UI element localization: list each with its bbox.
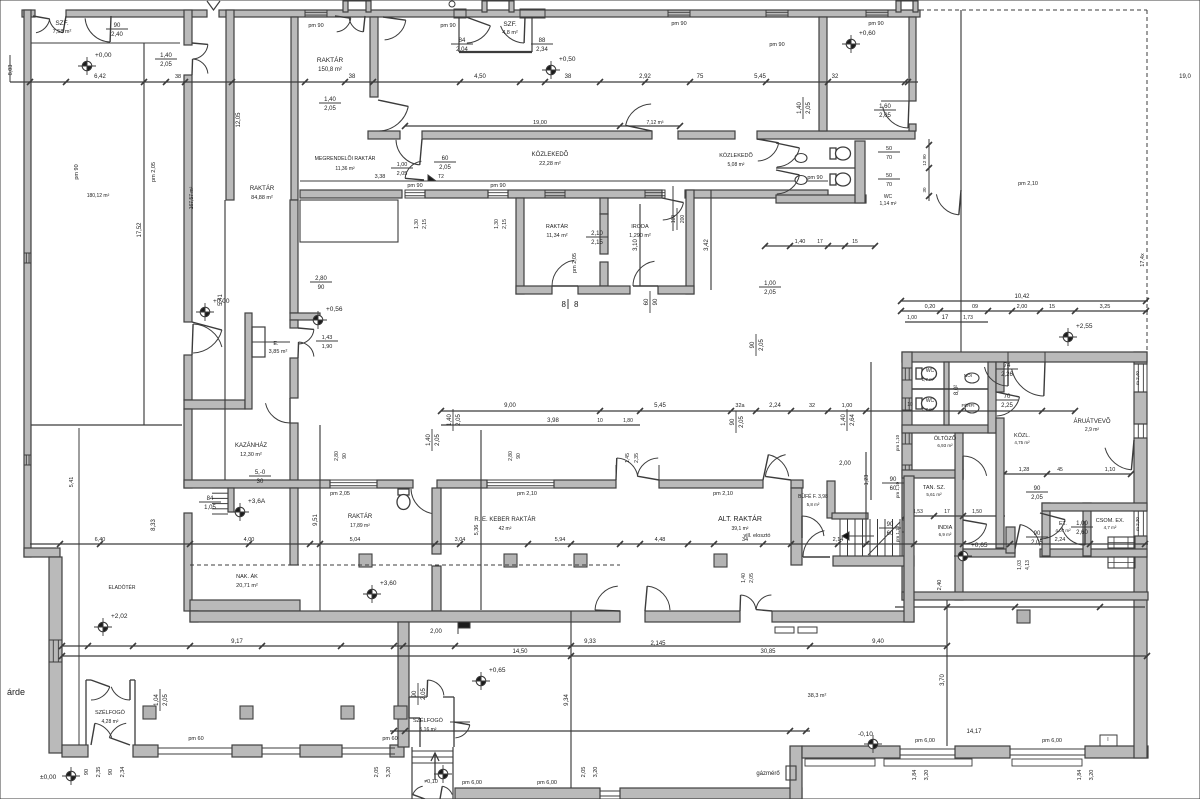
svg-text:FÉRFI: FÉRFI [962,402,975,408]
svg-text:2,24: 2,24 [769,403,781,409]
svg-text:1,40: 1,40 [795,239,806,245]
svg-text:3,04: 3,04 [455,537,466,543]
svg-text:E.: E. [273,341,279,347]
svg-text:32: 32 [809,403,815,409]
svg-text:WC: WC [926,368,935,374]
svg-text:3,20: 3,20 [593,767,599,778]
svg-text:19,0: 19,0 [1179,74,1191,80]
svg-text:22,28 m²: 22,28 m² [539,161,561,167]
svg-text:2,05: 2,05 [879,113,891,119]
svg-text:2,34: 2,34 [120,767,126,778]
svg-text:2,05: 2,05 [160,62,172,68]
svg-text:1,30: 1,30 [414,219,420,229]
svg-text:ÖLTÖZÕ: ÖLTÖZÕ [934,435,957,442]
svg-text:3,42: 3,42 [704,239,710,251]
svg-text:1,40: 1,40 [160,53,172,59]
svg-text:1,40: 1,40 [447,414,453,426]
svg-text:6,42: 6,42 [94,74,106,80]
svg-text:9,34: 9,34 [564,694,570,706]
svg-text:SZÉLFOGÓ: SZÉLFOGÓ [413,717,444,724]
svg-text:5,61 m²: 5,61 m² [926,492,942,497]
svg-text:84: 84 [459,38,466,44]
svg-text:KAZÁNHÁZ: KAZÁNHÁZ [235,442,267,449]
svg-text:RAKTÁR: RAKTÁR [348,513,373,520]
svg-text:2,15: 2,15 [422,219,428,229]
svg-text:1,00: 1,00 [764,281,776,287]
svg-text:90: 90 [114,23,121,29]
svg-text:50: 50 [886,173,892,179]
svg-text:84: 84 [207,496,214,502]
svg-text:3,85 m²: 3,85 m² [269,349,288,355]
svg-text:60: 60 [644,298,650,305]
svg-text:1,28: 1,28 [1019,467,1030,473]
svg-text:NÕI: NÕI [964,372,972,378]
svg-text:17: 17 [817,239,823,245]
svg-text:2,15: 2,15 [591,240,603,246]
svg-text:2,05: 2,05 [163,694,169,706]
svg-text:1,290 m²: 1,290 m² [629,233,651,239]
svg-text:1,7 m²: 1,7 m² [922,377,935,382]
svg-text:38: 38 [349,74,356,80]
svg-text:2,05: 2,05 [439,165,451,171]
svg-text:17,52: 17,52 [137,222,143,238]
svg-text:CSOM. EX.: CSOM. EX. [1096,518,1125,524]
svg-text:pm 2,05: pm 2,05 [330,491,350,497]
svg-text:10: 10 [597,418,603,424]
svg-text:150,8 m²: 150,8 m² [318,67,342,73]
svg-text:90: 90 [412,690,418,697]
svg-text:4,75 m²: 4,75 m² [1014,440,1030,445]
svg-text:NAK. ÁK: NAK. ÁK [236,573,258,580]
svg-text:12 90: 12 90 [922,154,927,166]
svg-text:8,33: 8,33 [151,519,157,531]
svg-text:2,80: 2,80 [334,451,340,461]
svg-text:m 2,40: m 2,40 [1135,371,1140,385]
svg-text:75: 75 [697,74,704,80]
svg-text:2,80: 2,80 [315,276,327,282]
svg-text:9,33: 9,33 [584,639,596,645]
svg-text:90: 90 [653,298,659,305]
svg-text:4,50: 4,50 [474,74,486,80]
svg-text:+2,02: +2,02 [111,613,128,620]
svg-text:1,40: 1,40 [324,97,336,103]
svg-text:2,05: 2,05 [324,106,336,112]
svg-text:pm 90: pm 90 [440,23,455,29]
svg-text:1,73: 1,73 [963,315,973,321]
svg-text:≠0,10: ≠0,10 [424,779,438,785]
svg-text:5,45: 5,45 [754,74,766,80]
svg-text:3,70: 3,70 [940,674,946,686]
svg-text:38: 38 [565,74,572,80]
svg-text:11,34 m²: 11,34 m² [546,233,567,239]
svg-text:pm 6,00: pm 6,00 [537,780,557,786]
svg-text:1,00: 1,00 [907,315,917,321]
svg-text:m 2,30: m 2,30 [1135,517,1140,531]
svg-text:2,05: 2,05 [1031,540,1043,546]
svg-text:90: 90 [516,453,522,459]
svg-text:+2,55: +2,55 [1076,323,1093,330]
svg-text:8,03: 8,03 [8,65,14,76]
svg-text:2,10: 2,10 [591,231,603,237]
svg-text:2,24: 2,24 [1055,537,1066,543]
svg-text:pm 90: pm 90 [769,42,784,48]
svg-text:1,84: 1,84 [1077,770,1083,781]
svg-text:1,60: 1,60 [879,104,891,110]
svg-text:9,17: 9,17 [231,639,243,645]
svg-text:17,89 m²: 17,89 m² [350,523,370,529]
svg-text:ET.: ET. [1059,521,1067,527]
svg-text:3,38: 3,38 [375,174,386,180]
svg-text:4,8 m²: 4,8 m² [502,30,518,36]
svg-text:180,12 m²: 180,12 m² [87,193,110,199]
svg-text:2,00: 2,00 [839,461,851,467]
svg-text:gázmérő: gázmérő [756,771,780,777]
svg-text:pm 60: pm 60 [382,736,397,742]
svg-text:5,36: 5,36 [474,525,480,536]
svg-text:1,00: 1,00 [1076,521,1088,527]
svg-text:2,40: 2,40 [937,580,943,591]
svg-text:TAN. SZ.: TAN. SZ. [923,485,946,491]
svg-text:5,8 m²: 5,8 m² [807,502,820,507]
svg-text:32a: 32a [735,403,745,409]
svg-text:2,00: 2,00 [1017,304,1028,310]
svg-text:INDIA: INDIA [938,525,953,531]
svg-text:+0,65: +0,65 [489,667,506,674]
svg-text:2,05: 2,05 [764,290,776,296]
svg-text:100: 100 [671,215,677,224]
svg-text:2,40: 2,40 [111,32,123,38]
svg-text:2,15: 2,15 [502,219,508,229]
svg-text:30,85: 30,85 [760,649,776,655]
svg-text:8,0²: 8,0² [954,385,960,395]
svg-text:2,9 m²: 2,9 m² [1085,427,1100,433]
svg-text:pm 90: pm 90 [868,21,883,27]
svg-text:RAKTÁR: RAKTÁR [250,185,275,192]
svg-text:90: 90 [1034,486,1041,492]
svg-text:10: 10 [907,402,913,408]
svg-text:39,1 m²: 39,1 m² [732,526,749,532]
svg-text:2,80: 2,80 [508,451,514,461]
svg-text:70: 70 [886,182,892,188]
svg-text:ÁRUÁTVEVÕ: ÁRUÁTVEVÕ [1073,418,1110,425]
svg-text:2,05: 2,05 [1031,495,1043,501]
svg-text:3,10: 3,10 [633,239,639,251]
svg-text:+0,50: +0,50 [559,56,576,63]
svg-text:90: 90 [342,453,348,459]
svg-text:2,25: 2,25 [1001,403,1013,409]
svg-text:32: 32 [832,74,839,80]
svg-text:4,48: 4,48 [655,537,666,543]
svg-text:2,64: 2,64 [850,414,856,426]
svg-text:1,43: 1,43 [322,335,333,341]
svg-text:3,20: 3,20 [1089,770,1095,781]
svg-text:pm 90: pm 90 [308,23,323,29]
svg-text:4,7 m²: 4,7 m² [1104,525,1117,530]
svg-text:12,05: 12,05 [236,112,242,128]
svg-text:90: 90 [887,522,894,528]
svg-text:3,20: 3,20 [924,770,930,781]
svg-text:1,40: 1,40 [426,434,432,446]
svg-text:60: 60 [887,531,894,537]
svg-text:pm 90: pm 90 [74,164,80,179]
svg-text:KÖZLEKEDÕ: KÖZLEKEDÕ [719,152,753,159]
svg-text:1,45: 1,45 [625,453,631,463]
svg-text:1,7 m²: 1,7 m² [922,407,935,412]
svg-text:5,41: 5,41 [218,294,224,306]
svg-text:ELADÓTÉR: ELADÓTÉR [109,584,136,591]
svg-text:2,05: 2,05 [374,767,380,778]
svg-text:-0,10: -0,10 [858,731,873,738]
svg-text:17,4x: 17,4x [1140,253,1146,267]
svg-text:9,00: 9,00 [504,403,516,409]
svg-text:74: 74 [1004,363,1011,369]
svg-text:pm 2,05: pm 2,05 [151,162,157,182]
svg-text:RAKTÁR: RAKTÁR [546,223,568,230]
svg-text:167,57 m²: 167,57 m² [189,186,195,209]
svg-text:1,00: 1,00 [397,162,408,168]
svg-text:90: 90 [730,418,736,425]
svg-text:12,30 m²: 12,30 m² [240,452,262,458]
svg-text:2,05: 2,05 [435,434,441,446]
svg-text:+0,60: +0,60 [859,30,876,37]
svg-text:1,23: 1,23 [864,475,870,486]
svg-text:38,3 m²: 38,3 m² [808,693,827,699]
svg-text:2,26: 2,26 [1001,372,1013,378]
svg-text:1,40: 1,40 [797,102,803,114]
svg-text:T2: T2 [438,174,444,180]
svg-text:30: 30 [257,479,264,485]
svg-text:5,94: 5,94 [555,537,566,543]
svg-text:KÖZL.: KÖZL. [1014,432,1030,439]
svg-text:1,14 m²: 1,14 m² [880,201,897,207]
svg-text:19,00: 19,00 [533,120,547,126]
svg-text:pm 6,00: pm 6,00 [1042,738,1062,744]
svg-text:árde: árde [7,687,25,697]
svg-text:15: 15 [1049,304,1055,310]
svg-text:90: 90 [1034,531,1041,537]
svg-text:2,34: 2,34 [536,47,548,53]
svg-text:pm 90: pm 90 [671,21,686,27]
svg-text:1,80: 1,80 [623,418,633,424]
svg-text:pm 1,10: pm 1,10 [895,434,900,451]
svg-text:pm 90: pm 90 [807,175,822,181]
svg-text:09: 09 [972,304,978,310]
svg-text:1,90: 1,90 [322,344,333,350]
svg-text:1,40: 1,40 [841,414,847,426]
svg-text:60: 60 [890,486,897,492]
svg-text:6,9 m²: 6,9 m² [939,532,952,537]
svg-text:ALT. RAKTÁR: ALT. RAKTÁR [718,514,762,523]
svg-text:SZF.: SZF. [55,20,69,27]
svg-text:pm 6,00: pm 6,00 [915,738,935,744]
svg-text:5,41: 5,41 [69,477,75,488]
svg-text:KÖZLEKEDÕ: KÖZLEKEDÕ [532,151,569,158]
svg-text:200: 200 [680,215,686,224]
svg-text:90: 90 [84,769,90,775]
svg-text:2,05: 2,05 [581,767,587,778]
svg-text:2,05: 2,05 [456,414,462,426]
svg-text:90: 90 [318,285,325,291]
svg-text:+0,56: +0,56 [326,306,343,313]
svg-text:60: 60 [442,156,449,162]
svg-text:pm 2,10: pm 2,10 [1018,181,1038,187]
svg-text:90: 90 [750,341,756,348]
svg-text:2,05: 2,05 [806,102,812,114]
svg-text:14,50: 14,50 [512,649,528,655]
svg-text:70: 70 [1004,394,1011,400]
svg-text:17: 17 [942,315,949,321]
svg-text:pm 2,10: pm 2,10 [713,491,733,497]
svg-text:1,10: 1,10 [1105,467,1116,473]
svg-text:3,25: 3,25 [1100,304,1111,310]
svg-text:pm 60: pm 60 [188,736,203,742]
svg-text:+3,6A: +3,6A [248,498,266,505]
svg-text:1,50: 1,50 [972,509,982,515]
svg-text:1,05: 1,05 [204,505,216,511]
svg-text:pm 90: pm 90 [407,183,422,189]
svg-text:pm 2,10: pm 2,10 [517,491,537,497]
svg-text:I: I [1107,737,1108,743]
svg-text:2,00: 2,00 [430,629,442,635]
svg-text:5,45: 5,45 [654,403,666,409]
svg-text:15: 15 [852,239,858,245]
svg-text:RAKTÁR: RAKTÁR [317,55,344,64]
svg-text:5,16 m²: 5,16 m² [420,727,437,733]
svg-text:90: 90 [890,477,897,483]
svg-text:2,60: 2,60 [1076,530,1088,536]
svg-text:WC: WC [884,194,893,200]
svg-text:SZF.: SZF. [503,21,517,28]
svg-text:IRODA: IRODA [631,224,649,230]
svg-text:+0,65: +0,65 [971,542,988,549]
svg-text:42 m²: 42 m² [499,526,512,532]
svg-text:SZÉLFOGÓ: SZÉLFOGÓ [95,709,126,716]
svg-text:4,28 m²: 4,28 m² [102,719,119,725]
svg-text:1,84: 1,84 [912,770,918,781]
svg-text:2,145: 2,145 [650,641,666,647]
svg-text:pm 90: pm 90 [490,183,505,189]
svg-text:1,53: 1,53 [913,509,923,515]
svg-text:1,40: 1,40 [741,573,747,583]
svg-text:8: 8 [562,300,567,309]
svg-text:9,40: 9,40 [872,639,884,645]
svg-text:30: 30 [922,187,927,193]
svg-text:3,20: 3,20 [386,767,392,778]
svg-text:+3,60: +3,60 [380,580,397,587]
svg-text:2,05: 2,05 [421,688,427,700]
svg-text:4,13: 4,13 [1025,560,1031,570]
svg-text:R. E. KEBER RAKTÁR: R. E. KEBER RAKTÁR [474,516,536,523]
svg-text:5,-0: 5,-0 [255,470,266,476]
svg-text:7,58 m²: 7,58 m² [53,29,72,35]
svg-text:1,04: 1,04 [154,694,160,706]
svg-text:±0,00: ±0,00 [40,774,57,781]
svg-text:3,98: 3,98 [547,418,559,424]
svg-text:0,20: 0,20 [925,304,936,310]
svg-text:7,12 m³: 7,12 m³ [647,120,664,126]
svg-text:70: 70 [886,155,892,161]
svg-text:88: 88 [539,38,546,44]
svg-text:2,35: 2,35 [96,767,102,778]
svg-text:2,14: 2,14 [833,537,844,543]
svg-text:45: 45 [1057,467,1063,473]
svg-text:50: 50 [886,146,892,152]
svg-text:84,88 m²: 84,88 m² [251,195,273,201]
svg-text:5,08 m²: 5,08 m² [728,162,745,168]
svg-text:90: 90 [108,769,114,775]
svg-text:5,04: 5,04 [350,537,361,543]
svg-text:4,00: 4,00 [244,537,255,543]
svg-text:9,51: 9,51 [313,514,319,526]
svg-text:1,03: 1,03 [1017,560,1023,570]
svg-text:2,05: 2,05 [739,416,745,428]
svg-text:8: 8 [574,300,579,309]
svg-text:2,92: 2,92 [639,74,651,80]
svg-text:pm 6,00: pm 6,00 [462,780,482,786]
svg-text:BÜFÉ F. 3,98: BÜFÉ F. 3,98 [798,493,828,500]
svg-text:10,42: 10,42 [1014,294,1030,300]
svg-text:MEGRENDELÕI RAKTÁR: MEGRENDELÕI RAKTÁR [315,155,376,162]
svg-text:2,35: 2,35 [634,453,640,463]
svg-text:2,04: 2,04 [456,47,468,53]
svg-text:pm 2,05: pm 2,05 [572,253,578,273]
svg-text:vill. elosztó: vill. elosztó [744,533,771,539]
svg-text:20,71 m²: 20,71 m² [236,583,258,589]
svg-text:6,40: 6,40 [95,537,106,543]
svg-text:1,00: 1,00 [842,403,853,409]
svg-text:2,05: 2,05 [759,339,765,351]
svg-text:WC: WC [926,398,935,404]
svg-text:38: 38 [175,74,181,80]
svg-text:11,36 m²: 11,36 m² [335,166,355,172]
svg-text:17: 17 [944,509,950,515]
svg-text:1,30: 1,30 [494,219,500,229]
svg-text:4,07 m²: 4,07 m² [1055,528,1071,533]
svg-text:6,93 m²: 6,93 m² [937,443,953,448]
svg-text:2,05: 2,05 [749,573,755,583]
svg-text:+0,00: +0,00 [95,52,112,59]
svg-text:14,17: 14,17 [966,729,982,735]
